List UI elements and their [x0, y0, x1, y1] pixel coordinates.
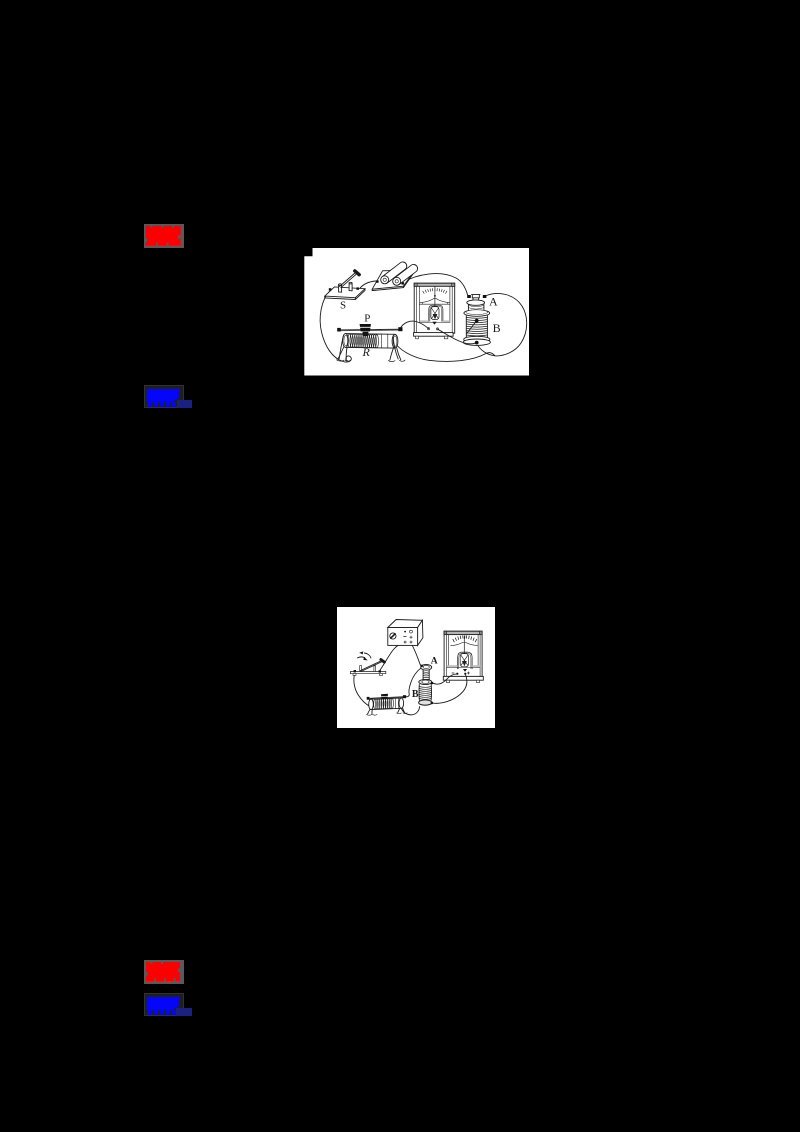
- label analysis-2 (blue text on dark box): [144, 993, 184, 1016]
- solenoid top ring flange: [420, 664, 431, 670]
- coil A neck: [468, 304, 484, 311]
- solenoid bottom flange: [418, 700, 431, 705]
- meter feet: [446, 680, 449, 682]
- coil A terminals: [467, 295, 471, 298]
- illustration 1: experiment circuit: [304, 248, 529, 376]
- rheostat rail 2: [368, 697, 405, 700]
- lower gray band: [419, 320, 429, 322]
- slider P knob: [359, 324, 370, 331]
- svg-text:R: R: [361, 345, 370, 359]
- rheostat band: [381, 334, 388, 348]
- galvanometer top slab: [414, 283, 455, 286]
- wire big left loop from switch S to rheostat R: [320, 291, 351, 362]
- switch S terminals: [328, 288, 331, 290]
- wire switch to power supply: [380, 643, 405, 670]
- wire meter right terminal to coil B bottom (over panel): [437, 329, 474, 344]
- meter bottom marks: [451, 672, 469, 674]
- wire big right loop from coil A to coil B bottom: [477, 293, 527, 355]
- wire power supply to solenoid top: [411, 643, 421, 665]
- galvanometer case: [414, 283, 455, 333]
- coil A upper flange: [466, 299, 484, 304]
- battery cell 1: [382, 261, 406, 282]
- scale ticks: [422, 288, 446, 293]
- svg-text:P: P: [364, 312, 370, 324]
- solenoid barrel: [419, 685, 431, 701]
- svg-text:S: S: [340, 299, 346, 311]
- label answer-2 (red text on gray box): [144, 960, 184, 984]
- wire switch S to battery: [359, 281, 376, 289]
- rheostat cylinder: [345, 333, 395, 348]
- solenoid right connector (dark): [430, 682, 433, 685]
- coil B wire dots: [474, 318, 478, 322]
- scale bottom curve: [420, 298, 450, 302]
- battery terminals: [376, 280, 379, 282]
- svg-text:A: A: [489, 294, 498, 308]
- scale bottom curve: [450, 642, 477, 645]
- rail caps: [337, 327, 341, 331]
- switch S handle (dark): [354, 270, 358, 274]
- battery holder plate: [372, 269, 415, 288]
- galvanometer case: [444, 631, 482, 676]
- svg-text:A: A: [430, 657, 437, 667]
- wire battery to coil A left terminal: [403, 273, 467, 294]
- switch lever 2: [360, 661, 382, 672]
- wire coil right to galvanometer left terminal (over base): [432, 674, 456, 684]
- rheostat rail: [338, 329, 402, 331]
- navy tag 1: [177, 400, 193, 408]
- switch contacts: [359, 666, 375, 672]
- coil B bottom flanges: [463, 336, 489, 342]
- arrowheads: [359, 651, 363, 654]
- rheostat legs right: [389, 336, 400, 360]
- label analysis-1 (blue text on dark box): [144, 385, 184, 408]
- solenoid junction ring flange: [418, 679, 431, 684]
- solenoid top connector (dark): [420, 665, 422, 667]
- coil A top knob: [471, 294, 480, 300]
- galvanometer side frames: [446, 635, 480, 677]
- illustration 2: experiment circuit: [337, 607, 495, 728]
- switch board: [350, 672, 385, 674]
- battery cell 2: [394, 264, 417, 284]
- meter terminals: [427, 327, 429, 329]
- switch S lever: [339, 272, 356, 287]
- rheostat cylinder 2: [371, 698, 401, 710]
- switch board feet: [353, 674, 356, 676]
- pointer: [433, 286, 435, 305]
- coil B body: [466, 315, 487, 337]
- meter feet: [415, 336, 418, 339]
- wire galvanometer right terminal to solenoid bottom (over base): [431, 675, 466, 703]
- lower gray band 2: [446, 665, 457, 667]
- rheostat band 2: [395, 698, 398, 708]
- switch S posts: [338, 284, 341, 292]
- inner window: [428, 305, 442, 321]
- power supply marks: [404, 631, 406, 633]
- motion arrow arcs: [357, 653, 370, 658]
- rheostat legs 2: [367, 709, 372, 714]
- scale plate bottom line: [419, 303, 450, 305]
- galvanometer side frames: [416, 286, 452, 332]
- navy tag 2: [176, 1008, 192, 1016]
- galvanometer needle: [463, 637, 465, 654]
- switch handle 2 (dark): [380, 660, 383, 663]
- svg-text:B: B: [411, 689, 418, 700]
- solenoid neck (wound): [423, 670, 429, 680]
- galvanometer scale ticks: [452, 636, 476, 642]
- rheostat slider 2: [381, 694, 388, 700]
- solenoid bottom connector (dark): [430, 702, 433, 705]
- wire switch left down big loop to rheostat left: [353, 674, 372, 707]
- rheostat legs left: [337, 335, 346, 359]
- switch S base plate: [324, 286, 364, 297]
- switch terminals 2: [353, 670, 355, 672]
- rheostat rail caps 2: [366, 697, 369, 700]
- moving coil bobbin: [430, 306, 438, 319]
- power supply front: [387, 628, 417, 646]
- pointer tip weight 2: [462, 669, 466, 672]
- svg-text:B: B: [492, 321, 500, 335]
- meter base slab: [413, 332, 453, 336]
- inner window with coil: [457, 652, 471, 669]
- power supply side: [417, 620, 422, 645]
- pointer tip weight: [432, 321, 437, 324]
- rheostat winding 2: [373, 698, 393, 709]
- coil B diagonal lead: [466, 320, 476, 333]
- wire rheostat lower right to big loop: [396, 345, 494, 361]
- wire rheostat bottom to solenoid bottom: [401, 707, 419, 715]
- galvanometer top slab: [444, 631, 482, 634]
- wire rheostat right cap to meter left terminal (over panel): [400, 321, 428, 328]
- power supply top: [387, 620, 422, 628]
- power supply knob: [389, 633, 395, 639]
- wire solenoid rim to rheostat right cap: [405, 668, 421, 697]
- meter base slab: [443, 676, 483, 680]
- label answer-1 (red text on gray box): [144, 224, 184, 248]
- moving coil 2: [460, 654, 468, 667]
- coil B top flange: [463, 309, 489, 315]
- rheostat winding: [347, 334, 378, 348]
- power supply terminals: [404, 641, 406, 643]
